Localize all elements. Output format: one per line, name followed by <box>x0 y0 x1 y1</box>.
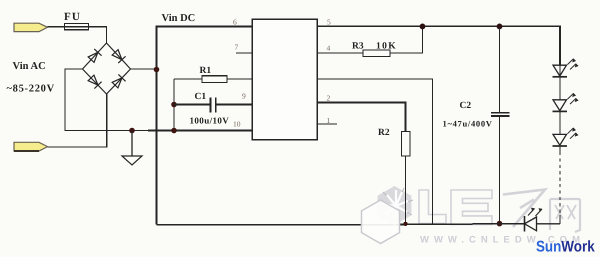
resistor R1 <box>202 76 227 83</box>
diode D3 bottom-left <box>87 74 101 88</box>
watermark hexagon logo with starburst <box>378 186 413 225</box>
diode D2 top-right <box>111 49 125 63</box>
IC U1 body <box>252 19 317 140</box>
wire IC pin 3 down to bottom rail <box>317 79 433 224</box>
watermark hexagon white overlay <box>362 200 400 244</box>
capacitor C1 <box>211 98 216 113</box>
wire LED string dashed segment <box>559 152 561 215</box>
ground symbol <box>122 131 142 166</box>
wire C2 top <box>499 26 501 112</box>
wire IC pin 5 to top right rail <box>317 26 560 65</box>
svg-text:C2: C2 <box>460 101 472 111</box>
wire R2 bottom to rail <box>405 156 407 224</box>
junction dot DC+ node <box>154 67 160 73</box>
svg-text:5: 5 <box>327 18 331 27</box>
svg-text:2: 2 <box>327 94 331 103</box>
wire IC pin 2 to R2 <box>317 103 406 132</box>
wire C1 right to IC pin 9 <box>216 104 252 106</box>
svg-text:6: 6 <box>233 18 237 27</box>
LED D6 <box>553 93 579 111</box>
logo SunWork <box>536 239 595 256</box>
terminal J1 (AC input top) <box>14 23 48 31</box>
svg-text:9: 9 <box>242 92 246 101</box>
svg-text:1~47u/400V: 1~47u/400V <box>443 119 493 129</box>
fuse FU <box>65 23 89 29</box>
watermark big letters LED net <box>419 190 580 233</box>
wire R2 bottom over watermark <box>399 186 420 224</box>
wire bridge right vertex to main left rail <box>131 68 157 70</box>
svg-text:Sun: Sun <box>536 239 561 256</box>
svg-text:Vin AC: Vin AC <box>13 61 46 72</box>
wire R1 left <box>174 78 202 80</box>
junction dot C1 left <box>171 102 177 108</box>
wire terminal1 to fuse <box>48 26 65 28</box>
junction dot C2 top <box>497 24 503 30</box>
LED D8 horizontal <box>525 208 561 232</box>
svg-text:R1: R1 <box>200 66 212 76</box>
wire R3 right up to rail <box>390 26 423 53</box>
wire top rail from left corner to IC pin 6 <box>157 27 253 225</box>
svg-text:7: 7 <box>235 43 239 52</box>
vertical node wire R1/C1 left <box>173 79 175 131</box>
wire R1 right to IC pin 8 <box>227 78 252 80</box>
svg-text:Work: Work <box>561 239 595 256</box>
svg-text:4: 4 <box>327 44 331 53</box>
wire IC pin 4 to R3 <box>317 52 363 54</box>
svg-text:~85-220V: ~85-220V <box>7 84 55 95</box>
svg-text:Vin DC: Vin DC <box>162 13 196 24</box>
junction dot ground stub <box>129 128 135 134</box>
diode D4 bottom-right <box>111 74 125 88</box>
wire bridge bottom vertex to terminal 2 <box>48 94 107 147</box>
resistor R2 <box>402 132 411 157</box>
svg-text:10K: 10K <box>376 42 397 52</box>
wire LED string right riser solid bottom <box>559 215 561 224</box>
junction dot R2 rail <box>403 222 407 226</box>
wire fuse to bridge top <box>89 27 107 43</box>
wire bottom rail <box>157 223 525 226</box>
junction dot R3 rail <box>420 24 426 30</box>
svg-text:FU: FU <box>64 11 81 23</box>
svg-text:100u/10V: 100u/10V <box>190 116 230 126</box>
diode D1 top-left <box>87 49 101 63</box>
svg-text:R3: R3 <box>352 42 364 52</box>
svg-text:10: 10 <box>233 120 241 129</box>
bridge rectifier diamond <box>83 43 131 94</box>
capacitor C2 <box>491 113 510 116</box>
svg-text:R2: R2 <box>378 128 390 138</box>
svg-text:C1: C1 <box>195 92 207 102</box>
junction dot node to ground rail <box>171 128 177 134</box>
wire C2 bottom <box>499 116 501 224</box>
IC pin 1 stub <box>317 123 337 125</box>
IC pin 7 stub <box>236 52 252 54</box>
wire bridge left vertex to ground rail <box>65 69 148 131</box>
wire C1 left <box>174 104 210 106</box>
junction dot C2 bottom <box>497 221 503 227</box>
LED D7 <box>553 128 579 146</box>
LED D5 <box>553 59 579 77</box>
wire LED1-LED2 <box>559 26 561 152</box>
resistor R3 <box>363 50 390 57</box>
terminal J2 (AC input bottom) <box>14 142 48 151</box>
